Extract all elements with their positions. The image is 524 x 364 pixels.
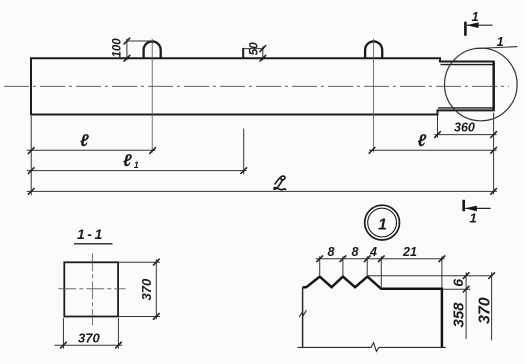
loop 2 axis <box>373 39 375 153</box>
svg-text:370: 370 <box>139 278 154 300</box>
lifting loop 1 <box>144 41 161 58</box>
beam centerline <box>4 85 509 87</box>
svg-text:1-1: 1-1 <box>77 226 105 242</box>
pin 50 <box>242 48 244 58</box>
dim l1 <box>243 129 245 175</box>
svg-text:8: 8 <box>328 245 335 259</box>
detail label circled 1 <box>365 205 400 240</box>
dim l left <box>30 116 32 195</box>
lifting loop 2 <box>365 41 382 58</box>
svg-text:ℓ: ℓ <box>123 151 132 170</box>
svg-text:ℓ: ℓ <box>80 131 89 150</box>
section mark bottom <box>462 200 465 212</box>
dim 360 <box>437 112 439 138</box>
svg-text:4: 4 <box>369 245 377 259</box>
svg-text:1: 1 <box>470 211 477 226</box>
svg-text:100: 100 <box>112 38 124 58</box>
svg-text:1: 1 <box>134 160 139 170</box>
section centerlines <box>58 288 125 290</box>
detail profile <box>303 277 442 348</box>
svg-text:360: 360 <box>454 121 475 135</box>
svg-text:1: 1 <box>497 34 504 49</box>
section mark top <box>464 22 467 36</box>
section dim 370 right <box>118 259 160 319</box>
section square <box>64 262 118 316</box>
dim l right <box>369 149 497 151</box>
beam outline <box>31 58 494 114</box>
detail top dims <box>316 256 445 288</box>
section dim 370 bottom <box>55 318 123 349</box>
svg-text:370: 370 <box>477 297 494 324</box>
detail right dims <box>367 272 492 340</box>
svg-text:ℓ: ℓ <box>418 131 427 150</box>
detail circle <box>445 48 518 121</box>
dim L <box>27 190 497 192</box>
svg-text:50: 50 <box>248 42 260 55</box>
svg-text:6: 6 <box>450 279 466 287</box>
script L <box>274 176 286 190</box>
svg-text:21: 21 <box>402 245 417 259</box>
bottom break line <box>298 343 446 352</box>
dim 50 <box>243 46 264 60</box>
detail leader <box>475 47 517 49</box>
svg-text:1: 1 <box>378 217 387 234</box>
left break mark <box>299 310 306 317</box>
dim 100 <box>127 39 152 61</box>
svg-text:8: 8 <box>352 245 359 259</box>
loop 1 axis <box>151 39 153 153</box>
svg-text:370: 370 <box>78 331 100 346</box>
svg-text:1: 1 <box>472 9 479 24</box>
svg-text:358: 358 <box>451 302 468 328</box>
